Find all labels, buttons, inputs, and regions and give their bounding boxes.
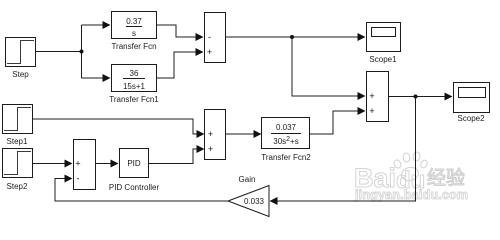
wire Transfer Fcn2 output to Sum2 input 2: [310, 111, 359, 134]
svg-text:30s2+s: 30s2+s: [273, 136, 298, 146]
arrowhead Sum4 input 1: [197, 130, 205, 138]
arrowhead Sum3 input 1: [65, 160, 73, 168]
sum block Sum2: [367, 72, 389, 122]
wire Gain output to Sum3 minus input: [55, 179, 228, 202]
svg-text:0.033: 0.033: [244, 197, 265, 206]
arrowhead Sum4 input 2: [197, 145, 205, 153]
wire to Transfer Fcn input: [82, 24, 105, 26]
svg-text:+: +: [208, 144, 213, 154]
svg-text:Scope1: Scope1: [369, 55, 397, 64]
svg-text:+: +: [207, 47, 212, 57]
wire Step1 output to Sum4 input 1: [32, 119, 198, 134]
wire Sum2 output to Scope2: [389, 96, 446, 98]
junction dot at Step branch: [80, 50, 84, 54]
transfer function Transfer Fcn: [112, 12, 157, 39]
wire Sum4 output to Transfer Fcn2: [226, 133, 255, 135]
svg-text:-: -: [208, 32, 211, 42]
svg-text:Scope2: Scope2: [457, 114, 485, 123]
wire Sum3 output to PID Controller: [96, 163, 112, 165]
svg-text:Step1: Step1: [7, 137, 28, 146]
wire PID Controller output to Sum4 input 2: [149, 149, 198, 164]
label Step: [12, 70, 29, 79]
label Scope1: [369, 55, 397, 64]
svg-text:Gain: Gain: [239, 175, 256, 184]
step source Step1: [3, 105, 33, 134]
sum block Sum4: [205, 110, 226, 160]
svg-text:0.037: 0.037: [276, 123, 297, 132]
svg-text:+: +: [369, 106, 374, 116]
wire Transfer Fcn output to Sum1 minus input: [157, 25, 197, 37]
arrowhead Transfer Fcn1 input: [103, 74, 111, 82]
step source Step2: [3, 149, 33, 178]
arrowhead Transfer Fcn input: [103, 21, 111, 29]
gain block Gain (triangle): [228, 186, 269, 217]
svg-text:Step: Step: [12, 70, 29, 79]
wire Step2 output to Sum3 plus input: [32, 163, 66, 165]
svg-text:经验: 经验: [427, 167, 465, 189]
label Transfer Fcn2: [261, 153, 311, 162]
svg-text:jingyan.baidu.com: jingyan.baidu.com: [354, 188, 468, 202]
label PID Controller: [109, 183, 160, 192]
arrowhead Scope2 input: [445, 93, 453, 101]
arrowhead Transfer Fcn2 input: [254, 130, 262, 138]
arrowhead Sum1 input 2: [196, 48, 204, 56]
PID controller U1: [120, 149, 149, 178]
svg-text:PID: PID: [127, 159, 141, 168]
label Step1: [7, 137, 28, 146]
svg-text:15s+1: 15s+1: [123, 82, 146, 91]
wire feedback junction down to Gain input: [276, 97, 416, 202]
svg-text:Transfer Fcn2: Transfer Fcn2: [261, 153, 311, 162]
arrowhead Sum3 input 2: [65, 175, 73, 183]
wire junction down to Sum2 input 1: [292, 37, 359, 96]
wire branch vertical to Transfer Fcn / Transfer Fcn1: [81, 25, 83, 78]
svg-text:+: +: [75, 159, 80, 169]
arrowhead Gain input (pointing left): [270, 197, 278, 205]
transfer function Transfer Fcn1: [112, 65, 157, 92]
svg-text:s: s: [132, 29, 136, 38]
junction dot on Sum1 output: [290, 35, 294, 39]
arrowhead Sum2 input 1: [358, 92, 366, 100]
wire to Transfer Fcn1 input: [82, 77, 105, 79]
label Transfer Fcn1: [109, 95, 159, 104]
step source Step: [6, 38, 36, 67]
svg-text:0.37: 0.37: [126, 17, 142, 26]
svg-text:Transfer Fcn1: Transfer Fcn1: [109, 95, 159, 104]
label Transfer Fcn: [111, 42, 156, 51]
label Scope2: [457, 114, 485, 123]
wire Sum1 output to Scope1: [226, 36, 359, 38]
arrowhead Scope1 input: [358, 33, 366, 41]
arrowhead Sum2 input 2: [358, 107, 366, 115]
svg-text:+: +: [369, 91, 374, 101]
label Step2: [7, 182, 28, 191]
wire Step output: [36, 51, 81, 53]
wire Transfer Fcn1 output to Sum1 plus input: [156, 52, 197, 78]
sum block Sum1: [205, 13, 226, 63]
arrowhead Sum1 input 1: [196, 33, 204, 41]
svg-text:+: +: [208, 129, 213, 139]
scope Scope2: [454, 83, 490, 113]
watermark Baidu logo: [354, 152, 465, 194]
sum block Sum3: [74, 140, 96, 190]
svg-text:36: 36: [130, 69, 139, 78]
svg-text:-: -: [77, 174, 80, 184]
arrowhead PID Controller input: [111, 160, 119, 168]
transfer function Transfer Fcn2: [262, 118, 310, 149]
label Gain: [239, 175, 256, 184]
junction dot on Sum2 output: [414, 95, 418, 99]
scope Scope1: [367, 23, 401, 52]
watermark url jingyan.baidu.com: [354, 188, 468, 202]
svg-text:Step2: Step2: [7, 182, 28, 191]
svg-text:Transfer Fcn: Transfer Fcn: [111, 42, 156, 51]
svg-text:PID Controller: PID Controller: [109, 183, 160, 192]
